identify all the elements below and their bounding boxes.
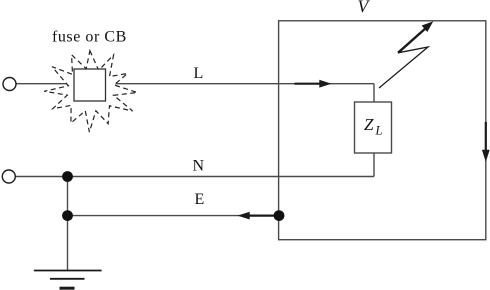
arrow current direction on enclosure right edge [485, 122, 487, 152]
wire N line from terminal to below ZL [15, 176, 374, 178]
ground symbol [34, 270, 102, 272]
junction dot E left [62, 210, 73, 221]
enclosure loop box [279, 21, 486, 240]
fuse F1 (square) [74, 69, 106, 101]
svg-text:E: E [195, 191, 205, 208]
wire earth drop from N junction to ground [67, 177, 69, 271]
starburst blown-fuse spark [44, 51, 137, 132]
arrow current direction on E [248, 215, 279, 217]
wire ZL bottom riser to N line [373, 153, 375, 177]
wire L vertical drop into ZL top [373, 84, 375, 102]
junction dot N [62, 171, 73, 182]
wire L line from terminal to load corner [16, 83, 374, 85]
svg-text:fuse or CB: fuse or CB [52, 29, 127, 46]
lightning bolt fault symbol [379, 47, 428, 88]
terminal L (circle) [3, 78, 16, 91]
terminal N (circle) [2, 170, 15, 183]
svg-text:Z: Z [364, 115, 374, 134]
svg-text:L: L [375, 124, 383, 138]
svg-text:L: L [194, 65, 204, 82]
wire E line from earth junction to enclosure edge [68, 215, 280, 217]
svg-text:N: N [193, 158, 205, 175]
junction dot E right at enclosure [274, 210, 285, 221]
arrow current direction on L [295, 83, 322, 85]
load ZL box [355, 102, 392, 153]
